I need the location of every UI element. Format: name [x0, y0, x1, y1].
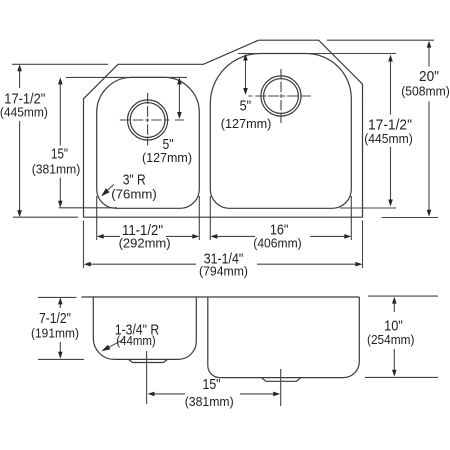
svg-text:3" R: 3" R — [123, 172, 146, 188]
svg-text:(44mm): (44mm) — [116, 334, 156, 348]
svg-text:(76mm): (76mm) — [111, 188, 157, 202]
svg-text:(292mm): (292mm) — [119, 237, 171, 251]
svg-text:(508mm): (508mm) — [401, 85, 450, 99]
svg-text:(445mm): (445mm) — [0, 106, 48, 120]
svg-text:5": 5" — [240, 99, 252, 115]
svg-text:20": 20" — [419, 69, 439, 85]
svg-text:(381mm): (381mm) — [32, 162, 81, 176]
svg-text:(254mm): (254mm) — [367, 333, 414, 347]
svg-text:(794mm): (794mm) — [199, 265, 248, 279]
svg-text:(127mm): (127mm) — [142, 151, 192, 165]
svg-text:15": 15" — [51, 146, 68, 162]
svg-text:(381mm): (381mm) — [185, 395, 234, 409]
svg-text:(406mm): (406mm) — [253, 237, 301, 251]
svg-text:15": 15" — [203, 377, 221, 393]
svg-text:(445mm): (445mm) — [364, 132, 413, 146]
svg-text:10": 10" — [384, 318, 403, 334]
svg-text:7-1/2": 7-1/2" — [39, 311, 71, 327]
svg-text:(191mm): (191mm) — [31, 326, 79, 340]
svg-text:(127mm): (127mm) — [221, 117, 272, 131]
svg-text:17-1/2": 17-1/2" — [368, 117, 412, 133]
